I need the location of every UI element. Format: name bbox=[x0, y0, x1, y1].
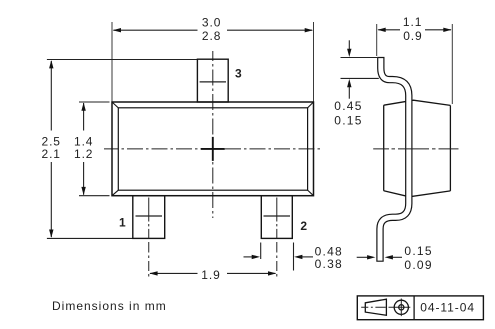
lead white core bbox=[380, 58, 409, 261]
dimension line 3.0/2.8 bbox=[113, 29, 312, 31]
svg-text:0.15: 0.15 bbox=[334, 113, 362, 127]
svg-text:Dimensions in mm: Dimensions in mm bbox=[52, 299, 167, 313]
pin 2 center tick bbox=[264, 215, 291, 217]
arrow up to 0.45 bottom bbox=[348, 87, 350, 99]
svg-text:0.09: 0.09 bbox=[404, 258, 432, 272]
leader arrow right of 0.48 bbox=[302, 256, 313, 258]
bevel corner bottom-right bbox=[307, 190, 313, 195]
main vertical centerline bbox=[212, 51, 214, 218]
body center cross mark bbox=[201, 137, 225, 161]
pin 1 rect bbox=[133, 196, 165, 239]
svg-text:0.9: 0.9 bbox=[403, 29, 422, 43]
svg-text:1.2: 1.2 bbox=[74, 147, 93, 161]
svg-text:1.1: 1.1 bbox=[403, 15, 422, 29]
extension line top for 2.5 dim bbox=[47, 59, 198, 61]
leader arrow left of 0.15 bottom bbox=[357, 256, 368, 258]
extension line pin2 right for 0.48 bbox=[293, 243, 295, 271]
projection symbol vertical crosshair bbox=[400, 299, 402, 317]
projection symbol centerline bbox=[361, 306, 410, 308]
arrow down of 2.5 bbox=[49, 230, 53, 238]
svg-text:3.0: 3.0 bbox=[202, 15, 221, 29]
arrow left of 3.0 bbox=[113, 28, 121, 32]
svg-text:1.9: 1.9 bbox=[201, 268, 220, 282]
body inner bevel rect bbox=[118, 108, 307, 190]
side horizontal centerline bbox=[373, 148, 458, 150]
extension line right for 3.0 dim bbox=[313, 22, 315, 102]
side body right edge bbox=[449, 105, 451, 190]
pin 2 centerline bbox=[276, 198, 278, 277]
dimension line 1.4/1.2 bbox=[83, 103, 85, 195]
extension line pin2 left for 0.48 bbox=[260, 243, 262, 260]
svg-text:3: 3 bbox=[235, 67, 242, 81]
svg-text:2.8: 2.8 bbox=[202, 29, 221, 43]
bevel corner top-right bbox=[307, 102, 313, 108]
svg-text:2: 2 bbox=[300, 219, 307, 233]
main horizontal centerline bbox=[104, 148, 323, 150]
arrow right of 1.9 bbox=[268, 271, 276, 275]
arrow left of 1.9 bbox=[149, 271, 157, 275]
dimension line 2.5/2.1 bbox=[50, 61, 52, 237]
pin 3 rect bbox=[197, 59, 228, 102]
extension line bottom for 0.45 dim bbox=[341, 77, 379, 79]
pin 1 center tick bbox=[136, 215, 163, 217]
arrow right of 3.0 bbox=[305, 28, 313, 32]
pin 3 center tick bbox=[200, 81, 226, 83]
svg-text:0.15: 0.15 bbox=[404, 244, 432, 258]
extension line bottom for 2.5 dim bbox=[47, 237, 133, 239]
arrow up of 2.5 bbox=[49, 60, 53, 68]
extension line top for 0.45 dim bbox=[341, 57, 378, 59]
bevel corner bottom-left bbox=[112, 190, 118, 195]
body outer rect bbox=[112, 102, 314, 196]
arrow right of 1.1 bbox=[443, 28, 451, 32]
side body bottom edges bbox=[384, 191, 451, 197]
side body left edge bbox=[383, 105, 385, 191]
pin 2 rect bbox=[261, 196, 292, 239]
svg-text:0.38: 0.38 bbox=[315, 257, 343, 271]
bevel corner top-left bbox=[112, 102, 118, 108]
arrow down of 1.4 bbox=[81, 187, 85, 195]
svg-text:2.1: 2.1 bbox=[42, 147, 61, 161]
svg-text:1: 1 bbox=[119, 216, 126, 230]
svg-text:0.45: 0.45 bbox=[334, 99, 362, 113]
dimension line 1.9 bbox=[150, 272, 276, 274]
svg-text:04-11-04: 04-11-04 bbox=[420, 301, 475, 315]
extension line left for 3.0 dim bbox=[111, 22, 113, 102]
projection symbol cone bbox=[365, 299, 386, 315]
leader arrow right of 0.15 bottom bbox=[393, 256, 403, 258]
projection symbol inner circle bbox=[399, 305, 404, 310]
extension line right for 1.1 dim bbox=[451, 24, 453, 104]
extension line bottom for 1.4 dim bbox=[79, 195, 110, 197]
dimension line 1.1/0.9 bbox=[378, 29, 451, 31]
title block divider bbox=[413, 296, 415, 320]
extension line left for 1.1 dim bbox=[376, 24, 378, 56]
arrow left of 1.1 bbox=[377, 28, 385, 32]
extension line top for 1.4 dim bbox=[79, 101, 110, 103]
arrow up of 1.4 bbox=[81, 103, 85, 111]
leader arrow left of 0.48 bbox=[244, 256, 253, 258]
lead (gull wing) outline bbox=[380, 57, 409, 262]
side body top edges bbox=[384, 100, 451, 105]
title block box bbox=[357, 296, 483, 320]
projection symbol outer circle bbox=[394, 300, 408, 314]
arrow down to 0.45 top bbox=[348, 40, 350, 49]
pin 1 centerline bbox=[148, 198, 150, 277]
